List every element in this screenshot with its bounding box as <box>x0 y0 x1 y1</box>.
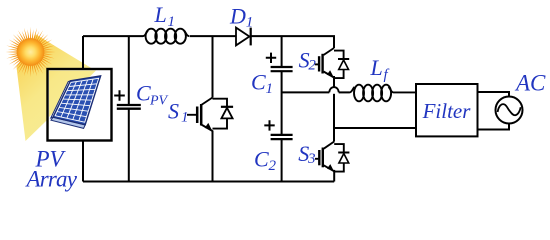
wire filter to AC top <box>478 92 510 97</box>
svg-text:AC: AC <box>514 71 546 96</box>
wire hump to Lf <box>339 91 350 93</box>
wire top rail <box>83 35 143 37</box>
svg-text:S: S <box>168 99 179 124</box>
PV array box <box>48 69 112 141</box>
svg-text:2: 2 <box>308 58 316 74</box>
svg-text:f: f <box>384 67 390 83</box>
inductor Lf <box>350 85 417 102</box>
capacitor CPV <box>117 104 141 106</box>
PV panel side faces <box>51 81 71 118</box>
wire top rail L1 to S1 node <box>190 35 237 37</box>
sun <box>6 27 56 77</box>
wire CPV branch top <box>128 36 130 104</box>
sun beam inside PV box <box>49 71 96 118</box>
wire top rail D1 to S2 corner <box>251 36 334 48</box>
wire S1 collector <box>212 36 214 97</box>
capacitor C2 <box>271 134 293 136</box>
svg-text:Array: Array <box>25 167 78 192</box>
wire left vertical (PV branch) <box>82 36 84 182</box>
svg-text:2: 2 <box>269 158 277 174</box>
svg-text:Filter: Filter <box>422 99 472 123</box>
svg-text:3: 3 <box>307 151 316 167</box>
plus sign C1 <box>266 53 276 63</box>
wire S1 emitter <box>212 131 214 182</box>
wire crossover hump <box>331 88 337 94</box>
svg-text:D: D <box>229 4 246 29</box>
transistor S3 (IGBT) <box>315 142 349 172</box>
transistor S1 (IGBT) <box>187 98 233 132</box>
wire C1 top <box>281 36 283 66</box>
AC source <box>496 97 523 124</box>
svg-text:C: C <box>254 147 269 172</box>
wire C1 to C2 <box>281 71 283 134</box>
capacitor C1 <box>271 66 293 68</box>
plus sign CPV <box>114 90 125 101</box>
svg-text:L: L <box>370 55 383 80</box>
wire C2 bottom <box>281 139 283 181</box>
svg-text:1: 1 <box>168 14 176 30</box>
diode D1 <box>236 28 249 46</box>
wire filter to AC bottom <box>478 124 510 130</box>
svg-text:PV: PV <box>149 94 169 109</box>
PV panel face <box>53 76 101 125</box>
wire S3 emitter <box>333 170 335 182</box>
svg-text:C: C <box>136 81 151 106</box>
sun beam <box>17 35 98 142</box>
wire midpoint tap to filter <box>334 127 416 129</box>
wire cap midpoint to hump <box>282 91 330 93</box>
transistor S2 (IGBT) <box>315 48 349 78</box>
svg-text:1: 1 <box>246 15 254 31</box>
inductor L1 <box>143 29 189 44</box>
svg-text:1: 1 <box>181 110 189 126</box>
svg-text:1: 1 <box>266 81 274 97</box>
wire CPV branch bottom <box>128 109 130 182</box>
wire bottom rail <box>83 181 334 183</box>
plus sign C2 <box>264 120 274 130</box>
svg-text:L: L <box>154 2 167 27</box>
svg-text:C: C <box>251 70 266 95</box>
wire S2-S3 midpoint vertical <box>333 76 335 142</box>
filter box <box>416 84 478 136</box>
